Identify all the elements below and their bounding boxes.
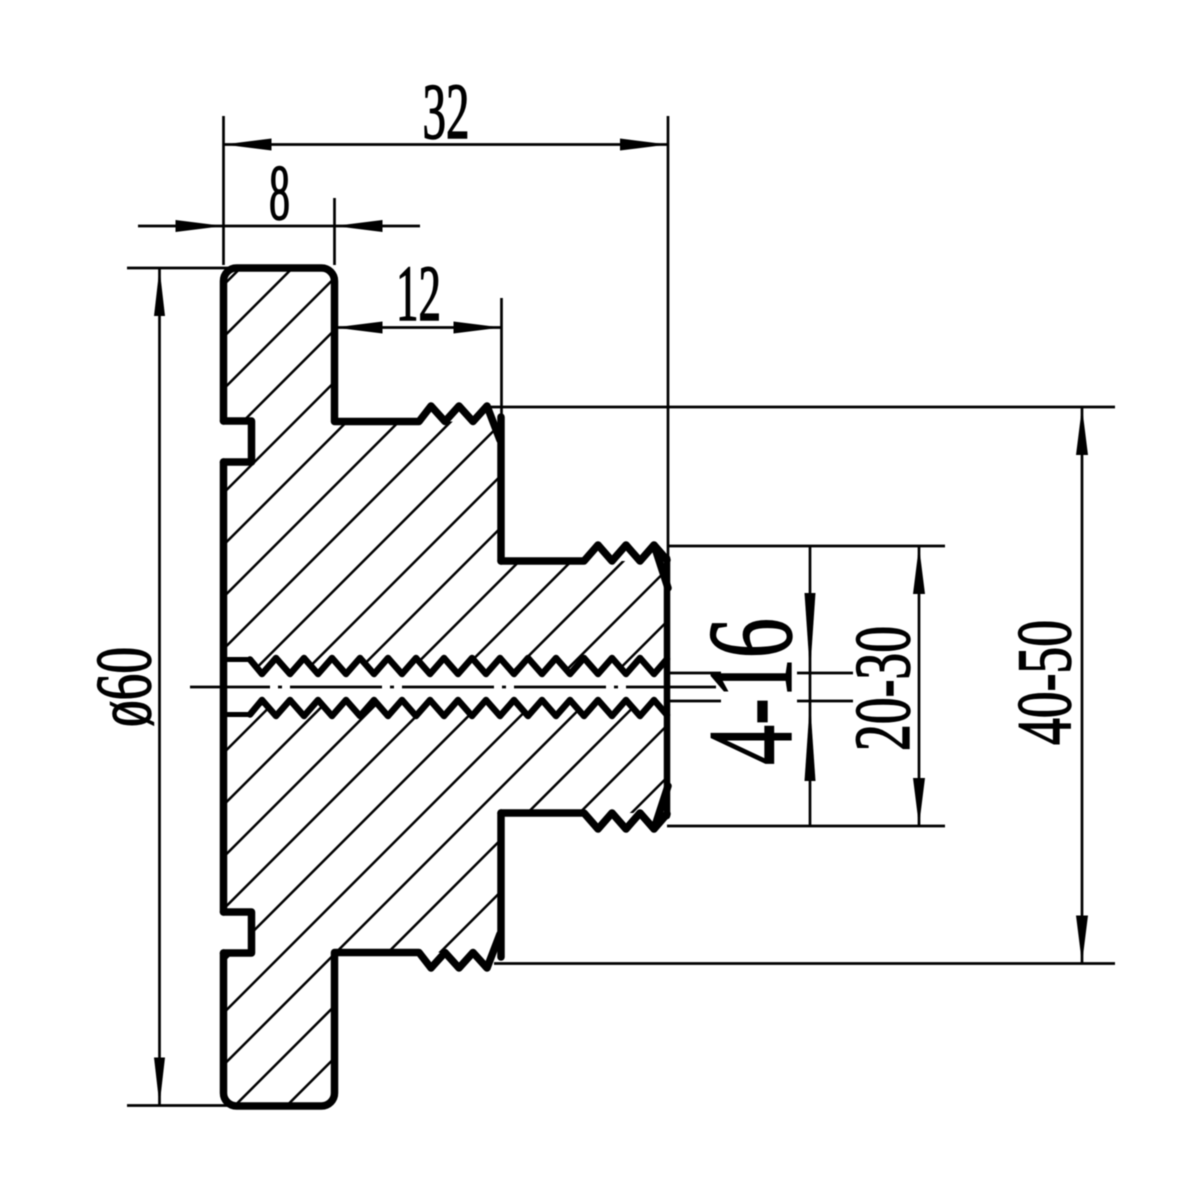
upper left notch [224, 421, 252, 462]
dim 32 line [224, 143, 669, 146]
dim 4-16 extension top [670, 672, 853, 675]
flange upper outline with thread run A [224, 268, 501, 440]
hole lip lower [224, 712, 251, 717]
dim 20-30 extension top [667, 545, 945, 548]
flange lower outline with thread run A [224, 934, 501, 1106]
centerline [190, 686, 716, 689]
dim 8 extension right [333, 198, 336, 265]
dim 8 arrow right [335, 220, 383, 232]
svg-text:ø60: ø60 [81, 647, 168, 727]
dim 8 line [138, 225, 420, 228]
dim 8 arrow left [176, 220, 224, 232]
dim 32 arrow left [224, 139, 272, 151]
dim 4-16 arrow bottom [805, 701, 816, 781]
dim 40-50 line [1081, 407, 1084, 964]
dim d60 arrow top [154, 268, 165, 316]
dim 12 extension right [500, 298, 503, 420]
dim 32 extension left [222, 116, 225, 265]
section A end face lower [497, 813, 505, 957]
svg-text:8: 8 [269, 150, 290, 237]
dim 20-30 line [918, 546, 921, 826]
dim 40-50 extension bottom [494, 962, 1115, 965]
hole lip upper [224, 657, 251, 662]
dim 20-30 extension bottom [667, 825, 945, 828]
dim 40-50 extension top [490, 406, 1115, 409]
dim 32 extension right [667, 116, 670, 560]
section B lower edge with thread [501, 786, 668, 829]
svg-text:40-50: 40-50 [1001, 620, 1087, 745]
dim 4-16 arrow top [805, 593, 816, 673]
dim 20-30 arrow top [913, 546, 925, 594]
dim d60 extension top [127, 267, 252, 270]
dim 12 arrow right [454, 322, 502, 334]
svg-text:32: 32 [423, 69, 470, 156]
dim 40-50 arrow bottom [1076, 916, 1088, 964]
section A end face upper [497, 417, 505, 561]
dim 12 line [335, 326, 502, 329]
dim 20-30 arrow bottom [913, 778, 925, 826]
internal thread zigzag lower [250, 700, 667, 716]
dim 12 arrow left [335, 322, 383, 334]
dim d60 line [158, 268, 161, 1106]
dim 4-16 line [809, 547, 812, 826]
internal thread zigzag upper [250, 658, 667, 674]
svg-text:4-16: 4-16 [684, 618, 818, 765]
dim 32 arrow right [620, 139, 668, 151]
dim 4-16 extension bottom [670, 700, 853, 703]
section B upper edge with thread [501, 545, 668, 588]
dim d60 arrow bottom [154, 1058, 165, 1106]
dim 40-50 arrow top [1076, 407, 1088, 455]
flange left edge mid segment [220, 462, 228, 912]
dim d60 extension bottom [127, 1104, 248, 1107]
section B end face [664, 558, 671, 816]
svg-text:20-30: 20-30 [840, 626, 927, 751]
svg-text:12: 12 [396, 251, 441, 338]
lower left notch [224, 912, 252, 953]
